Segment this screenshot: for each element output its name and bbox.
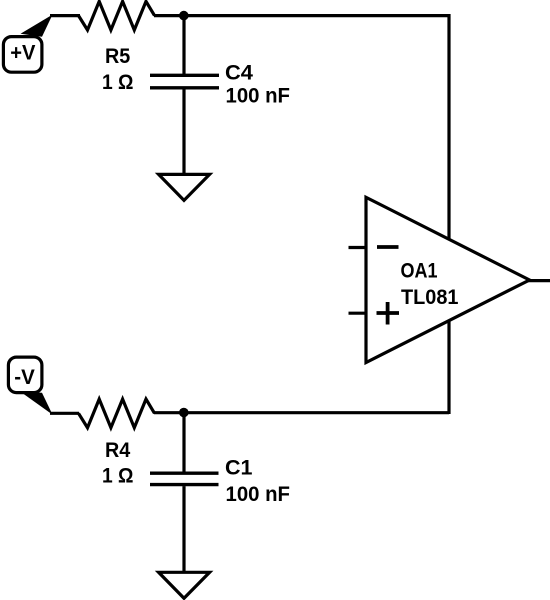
svg-text:R5: R5 bbox=[105, 45, 131, 68]
wire +V to R5 bbox=[50, 14, 80, 17]
svg-text:100 nF: 100 nF bbox=[226, 483, 291, 506]
node B junction dot bbox=[179, 408, 189, 418]
capacitor C1 bbox=[150, 413, 219, 572]
svg-text:TL081: TL081 bbox=[401, 286, 459, 309]
svg-text:-V: -V bbox=[14, 366, 35, 389]
svg-text:C1: C1 bbox=[225, 457, 253, 480]
svg-text:100 nF: 100 nF bbox=[226, 85, 291, 108]
wire up to op-amp V- pin bbox=[447, 321, 450, 415]
plus symbol bbox=[377, 311, 400, 315]
wire node A to top-right corner bbox=[184, 14, 449, 17]
net flag -V bbox=[8, 357, 42, 393]
wire -V to R4 bbox=[50, 412, 79, 415]
svg-text:OA1: OA1 bbox=[401, 259, 438, 282]
minus symbol bbox=[377, 245, 399, 249]
svg-text:C4: C4 bbox=[225, 62, 253, 85]
non-inverting input stub bbox=[349, 312, 367, 315]
wire wedge from +V to net bbox=[21, 15, 53, 37]
wire wedge from -V to net bbox=[21, 392, 53, 415]
capacitor C4 bbox=[150, 16, 219, 175]
svg-text:R4: R4 bbox=[105, 439, 131, 462]
svg-text:1 Ω: 1 Ω bbox=[102, 465, 134, 488]
node A junction dot bbox=[179, 11, 189, 21]
output wire bbox=[528, 279, 550, 282]
ground (top) bbox=[159, 174, 210, 200]
op-amp OA1 bbox=[349, 197, 530, 362]
ground (bottom) bbox=[159, 572, 210, 598]
inverting input stub bbox=[349, 246, 367, 249]
wire down to op-amp V+ pin bbox=[447, 14, 450, 240]
wire node B to bottom-right corner bbox=[184, 411, 449, 414]
wire R4 to node B bbox=[154, 411, 184, 414]
svg-text:1 Ω: 1 Ω bbox=[102, 71, 134, 94]
net flag +V bbox=[3, 37, 42, 73]
resistor R5 bbox=[79, 1, 155, 30]
wire R5 to node A bbox=[154, 14, 184, 17]
resistor R4 bbox=[79, 399, 155, 428]
svg-text:+V: +V bbox=[10, 41, 35, 64]
